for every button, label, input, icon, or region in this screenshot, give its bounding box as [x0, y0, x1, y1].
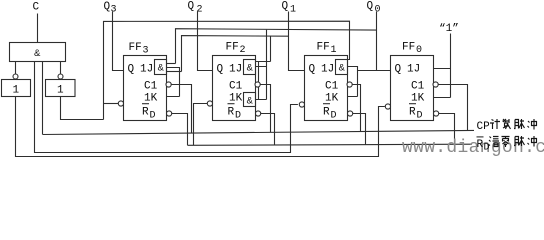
svg-text:FF: FF: [402, 42, 415, 54]
svg-text:1J: 1J: [407, 64, 420, 76]
pin FF3 C1 clock bubble: [166, 82, 171, 87]
pin FF3 J-gate input 3 from line C: [167, 71, 182, 73]
pin FF3 RD bubble: [167, 111, 172, 116]
svg-text:3: 3: [111, 5, 117, 16]
CJK qing zero pulse chars: [489, 137, 500, 147]
svg-text:1K: 1K: [325, 93, 339, 105]
svg-text:3: 3: [143, 46, 149, 57]
svg-text:D: D: [417, 111, 423, 122]
svg-text:Q: Q: [395, 64, 402, 76]
svg-text:1J: 1J: [321, 64, 334, 76]
svg-text:1: 1: [331, 45, 337, 56]
wire G1 output to FF1 set bubble: [35, 62, 298, 153]
node Q1 label: [282, 1, 297, 16]
svg-text:&: &: [34, 48, 41, 59]
pin FF0 1J to constant 1: [434, 68, 451, 70]
svg-text:D: D: [150, 111, 156, 122]
flip-flop FF0: [391, 42, 434, 122]
flip-flop FF3: [124, 42, 167, 122]
node Q0 label: [367, 1, 381, 16]
svg-text:Q: Q: [128, 64, 135, 76]
inverter bubble over buffer 1b: [58, 74, 63, 79]
svg-text:C1: C1: [325, 81, 339, 93]
svg-text:1: 1: [290, 5, 296, 16]
wire line A branch to FF3 set bubble: [104, 103, 119, 105]
svg-text:&: &: [247, 96, 254, 107]
wire C stem: [37, 14, 39, 43]
gate AND G1 control gate: [10, 43, 66, 62]
pin FF2 set bubble: [207, 101, 212, 106]
wire FF3 clock to CP bus: [171, 85, 191, 134]
wire Q1 stem to FF1 Q row: [289, 12, 305, 71]
pin FF1 C1 clock bubble: [347, 82, 352, 87]
pin FF2 J-gate input 1 from line C: [256, 36, 271, 62]
svg-text:Q: Q: [104, 1, 111, 13]
svg-text:Q: Q: [188, 1, 195, 13]
wire line B Q0 feedback bus: [176, 29, 377, 64]
wire "1" stem: [450, 34, 452, 98]
pin FF2 J-gate input 2 from line B: [256, 30, 267, 100]
pin FF1 J-gate input 2 tied to 1K and Q0: [348, 67, 358, 97]
svg-text:1: 1: [57, 85, 64, 97]
svg-text:C1: C1: [411, 81, 425, 93]
wire buffer 1a output to FF0 set bubble: [16, 97, 385, 157]
node RD input label: [477, 136, 537, 154]
svg-text:C: C: [33, 2, 40, 14]
wire Q3 stem to FF3 Q row: [113, 12, 124, 71]
pin FF2 K-gate input tie: [256, 62, 267, 100]
svg-text:R: R: [477, 139, 484, 151]
wire buffer 1b output up to line A: [61, 97, 104, 120]
pin FF0 C1 clock bubble: [433, 82, 438, 87]
pin FF1 RD bubble: [348, 111, 353, 116]
buffer 1a box: [2, 80, 31, 97]
pin FF3 set bubble: [118, 101, 123, 106]
node C label: [33, 2, 40, 14]
svg-text:C1: C1: [144, 81, 158, 93]
svg-text:CP: CP: [477, 121, 491, 133]
node "1" constant label: [439, 23, 459, 35]
node Q2 label: [188, 1, 203, 16]
wire FF1 clock to CP bus: [352, 85, 360, 132]
pin FF2 C1 clock bubble: [255, 82, 260, 87]
CJK ji counter pulse chars: [490, 119, 500, 129]
svg-text:2: 2: [240, 45, 246, 56]
svg-text:Q: Q: [217, 64, 224, 76]
svg-text:1K: 1K: [411, 93, 425, 105]
pin FF1 set bubble: [299, 102, 304, 107]
pin FF0 1K to constant 1: [434, 97, 451, 99]
svg-text:1: 1: [13, 85, 20, 97]
wire G1 output to CP bus: [42, 62, 44, 135]
svg-text:FF: FF: [317, 42, 330, 54]
wire FF0 clock to CP bus: [438, 85, 467, 131]
wire FF1 RD to clear bus: [353, 114, 366, 145]
svg-text:R: R: [142, 107, 149, 119]
svg-text:D: D: [235, 111, 241, 122]
pin FF0 set bubble: [385, 104, 390, 109]
wire G1 stub to bubble 1b: [60, 62, 62, 75]
svg-text:&: &: [339, 63, 346, 74]
svg-text:R: R: [409, 107, 416, 119]
wire Q0 row to FF0 Q and FF1 K-tie: [358, 70, 391, 72]
pin FF0 RD bubble: [434, 111, 439, 116]
svg-text:&: &: [247, 63, 254, 74]
pin FF2 RD bubble: [256, 111, 261, 116]
svg-text:R: R: [323, 107, 330, 119]
svg-text:0: 0: [375, 5, 381, 16]
wire FF2 set bubble feeder from clear bus: [194, 104, 208, 146]
wire RD clear bus: [188, 144, 473, 145]
wire line A top bus from buffer 1b to FF1 J-gate: [104, 21, 350, 119]
wire FF3 RD to clear bus: [172, 114, 188, 146]
wire FF0 RD to clear bus: [439, 114, 455, 145]
svg-text:1K: 1K: [144, 93, 158, 105]
flip-flop FF1: [305, 42, 348, 122]
wire FF2 clock to CP bus: [260, 85, 270, 133]
svg-text:C1: C1: [229, 81, 243, 93]
wire CP bus: [43, 130, 475, 134]
svg-text:1K: 1K: [229, 93, 243, 105]
svg-text:Q: Q: [282, 1, 289, 13]
flip-flop FF2: [213, 42, 256, 122]
wire G1 stub to bubble 1a: [15, 62, 17, 75]
svg-text:0: 0: [416, 45, 422, 56]
wire Q2 stem to FF2 Q row: [198, 12, 213, 71]
wire Q0 stem down through line B end: [376, 12, 378, 71]
buffer 1b box: [46, 80, 76, 97]
inverter bubble over buffer 1a: [13, 74, 18, 79]
svg-text:“1”: “1”: [439, 23, 459, 35]
svg-text:Q: Q: [309, 64, 316, 76]
node CP input label: [477, 119, 537, 133]
pin FF3 J-gate input 2 tied to 1K: [167, 68, 180, 97]
svg-text:&: &: [158, 63, 165, 74]
svg-text:1J: 1J: [229, 64, 242, 76]
wire line C Q1 feedback bus: [182, 36, 289, 72]
node Q3 label: [104, 1, 117, 16]
svg-text:FF: FF: [129, 42, 142, 54]
pin FF3 J-gate input 1 from line B: [167, 63, 176, 65]
svg-text:D: D: [484, 143, 490, 154]
svg-text:Q: Q: [367, 1, 374, 13]
svg-text:FF: FF: [226, 42, 239, 54]
svg-text:D: D: [331, 111, 337, 122]
svg-text:1J: 1J: [140, 64, 153, 76]
wire FF2 RD to clear bus: [261, 114, 275, 145]
svg-text:R: R: [228, 107, 235, 119]
